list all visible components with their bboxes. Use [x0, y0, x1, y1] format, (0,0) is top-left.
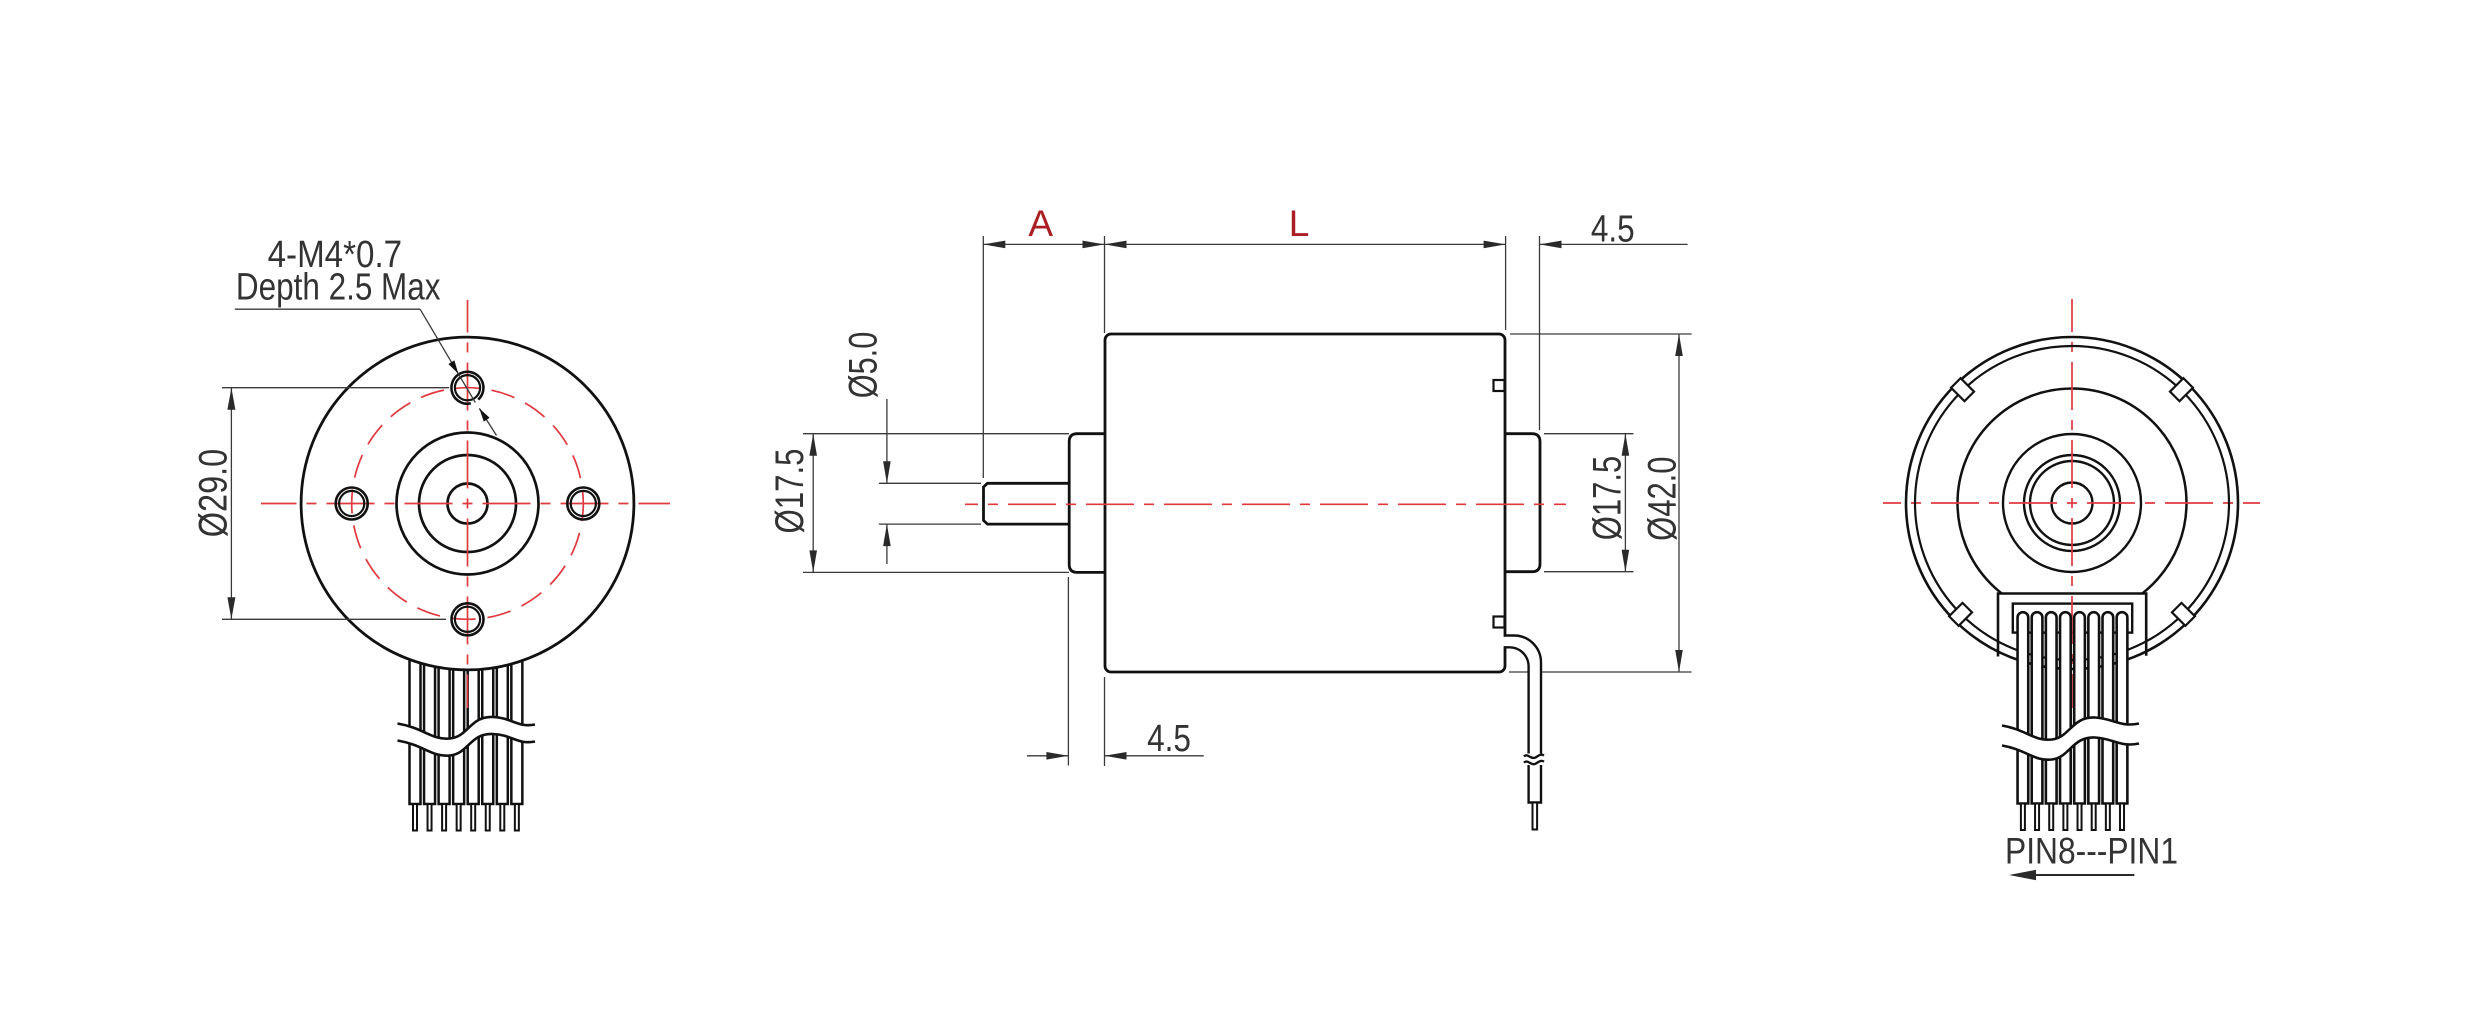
bearing circle outer	[2024, 455, 2120, 551]
motor body rectangle	[1105, 334, 1505, 672]
bolt circle (red dashed)	[352, 388, 584, 620]
mounting hole left	[336, 488, 368, 520]
dim A arrow right	[1083, 241, 1105, 249]
dim 4.5 bottom arrow right	[1105, 752, 1127, 760]
dim L arrow left	[1105, 241, 1127, 249]
centerline horizontal (rear)	[1883, 502, 2260, 504]
centerline vertical	[467, 300, 469, 708]
pilot boss circle	[397, 433, 539, 575]
dim 4.5 bottom ext right	[1104, 677, 1106, 766]
stator circle	[2003, 434, 2141, 572]
mounting hole right	[567, 488, 599, 520]
dim A extension line	[982, 236, 984, 478]
rear lead wire white fill	[1505, 636, 1541, 804]
dim L line	[1105, 243, 1506, 245]
rotor ring circle	[1958, 389, 2187, 618]
wire break squiggle small	[1524, 755, 1544, 765]
svg-text:Ø17.5: Ø17.5	[768, 448, 812, 533]
svg-text:Depth 2.5 Max: Depth 2.5 Max	[236, 267, 441, 309]
dim 4.5 bottom line left	[1027, 755, 1069, 757]
dia 17.5 right dim line	[1624, 434, 1626, 572]
svg-text:4.5: 4.5	[1591, 209, 1635, 251]
dim 4.5 top line	[1540, 243, 1688, 245]
dia 5.0 ext bottom	[879, 523, 981, 525]
connector pins (8)	[413, 804, 519, 831]
wire bundle (8 lead wires)	[410, 645, 523, 804]
dia 17.5 left arrow up	[809, 434, 817, 456]
rear tab lower	[1494, 617, 1505, 628]
pin order arrowhead	[2009, 870, 2036, 880]
dim A line	[983, 243, 1104, 245]
dim 4.5 bottom arrow left	[1046, 752, 1068, 760]
svg-text:Ø5.0: Ø5.0	[842, 332, 886, 399]
dia 29.0 extension line bottom	[222, 618, 446, 620]
dia 17.5 left ext bottom	[803, 571, 1069, 573]
wire break squiggle band	[398, 717, 536, 756]
mounting hole top	[451, 372, 483, 404]
leader arrowhead at hole edge	[448, 360, 458, 373]
dia 17.5 right arrow up	[1622, 434, 1630, 456]
centerline horizontal	[261, 503, 670, 505]
rear pins (8)	[2021, 804, 2124, 831]
rear tab upper	[1494, 380, 1505, 391]
svg-text:L: L	[1289, 203, 1310, 244]
svg-text:Ø29.0: Ø29.0	[192, 449, 236, 538]
dia 17.5 right ext top	[1544, 433, 1634, 435]
dim 4.5 bottom ext left	[1067, 577, 1069, 766]
dia 5.0 arrow upper	[883, 461, 891, 483]
dia 17.5 left dim line	[812, 434, 814, 573]
connector housing inner	[2013, 604, 2132, 633]
shaft end circle	[2052, 483, 2093, 524]
dia 42.0 arrow up	[1675, 334, 1683, 356]
depth leader line	[479, 408, 496, 435]
dia 5.0 arrow lower	[883, 524, 891, 546]
notch top-left	[1951, 378, 1974, 401]
shaft	[984, 483, 1070, 524]
dim ext body right above	[1505, 236, 1507, 330]
leader diagonal	[420, 309, 475, 402]
outer flange circle	[301, 337, 634, 670]
wire break squiggle band (rear)	[2002, 717, 2139, 759]
dim L arrow right	[1484, 241, 1506, 249]
notch bottom-left	[1949, 603, 1972, 626]
mounting hole bottom	[452, 603, 484, 635]
rear lead wire outer line	[1505, 636, 1541, 754]
dia 17.5 left arrow down	[809, 550, 817, 572]
centerline horizontal (middle view)	[965, 503, 1566, 505]
rear cover circle	[1915, 346, 2229, 660]
dia 29.0 arrow up	[227, 388, 235, 410]
dim ext body left above	[1104, 236, 1106, 333]
dia 17.5 right arrow down	[1622, 550, 1630, 572]
dia 42.0 ext top	[1510, 333, 1692, 335]
rear wire pin	[1533, 803, 1538, 830]
dia 29.0 arrow down	[227, 597, 235, 619]
dia 5.0 dim line upper	[886, 399, 888, 483]
svg-text:4.5: 4.5	[1147, 718, 1191, 760]
dia 42.0 ext bottom (behind wire)	[1509, 671, 1692, 673]
housing outer circle	[1906, 337, 2238, 669]
dia 42.0 arrow down	[1675, 650, 1683, 672]
dia 29.0 extension line top	[222, 387, 449, 389]
dia 29.0 dimension line	[230, 388, 232, 620]
depth leader arrowhead	[479, 408, 489, 421]
dia 17.5 left ext top	[803, 433, 1069, 435]
dim 4.5 top arrow	[1540, 241, 1562, 249]
dia 17.5 right ext bottom	[1544, 571, 1634, 573]
pin order arrow line	[2035, 874, 2134, 876]
svg-text:Ø17.5: Ø17.5	[1586, 456, 1630, 540]
bearing circle inner	[2030, 461, 2114, 545]
rear wire lower segment	[1529, 765, 1541, 803]
rear lead wire inner line	[1505, 647, 1529, 753]
connector housing outer	[1998, 594, 2146, 657]
dia 42.0 dim line	[1678, 334, 1680, 672]
dia 5.0 ext top	[879, 482, 981, 484]
dia 5.0 dim line lower	[886, 524, 888, 564]
svg-text:A: A	[1028, 203, 1053, 244]
svg-text:PIN8---PIN1: PIN8---PIN1	[2005, 830, 2178, 871]
front boss	[1069, 434, 1105, 573]
dim 4.5 bottom line right	[1105, 755, 1204, 757]
rear boss	[1505, 434, 1540, 572]
wire exit opening (gap in body edge)	[1503, 637, 1506, 646]
notch top-right	[2170, 378, 2193, 401]
leader underline	[235, 308, 420, 310]
notch bottom-right	[2172, 603, 2195, 626]
centerline vertical (rear)	[2071, 299, 2073, 708]
shaft circle	[448, 484, 488, 524]
svg-text:Ø42.0: Ø42.0	[1641, 457, 1685, 541]
dim A arrow left	[983, 241, 1005, 249]
bearing boss circle	[419, 455, 516, 552]
ribbon wires (8 U-tubes)	[2018, 612, 2128, 803]
dim ext rear boss above	[1539, 236, 1541, 430]
